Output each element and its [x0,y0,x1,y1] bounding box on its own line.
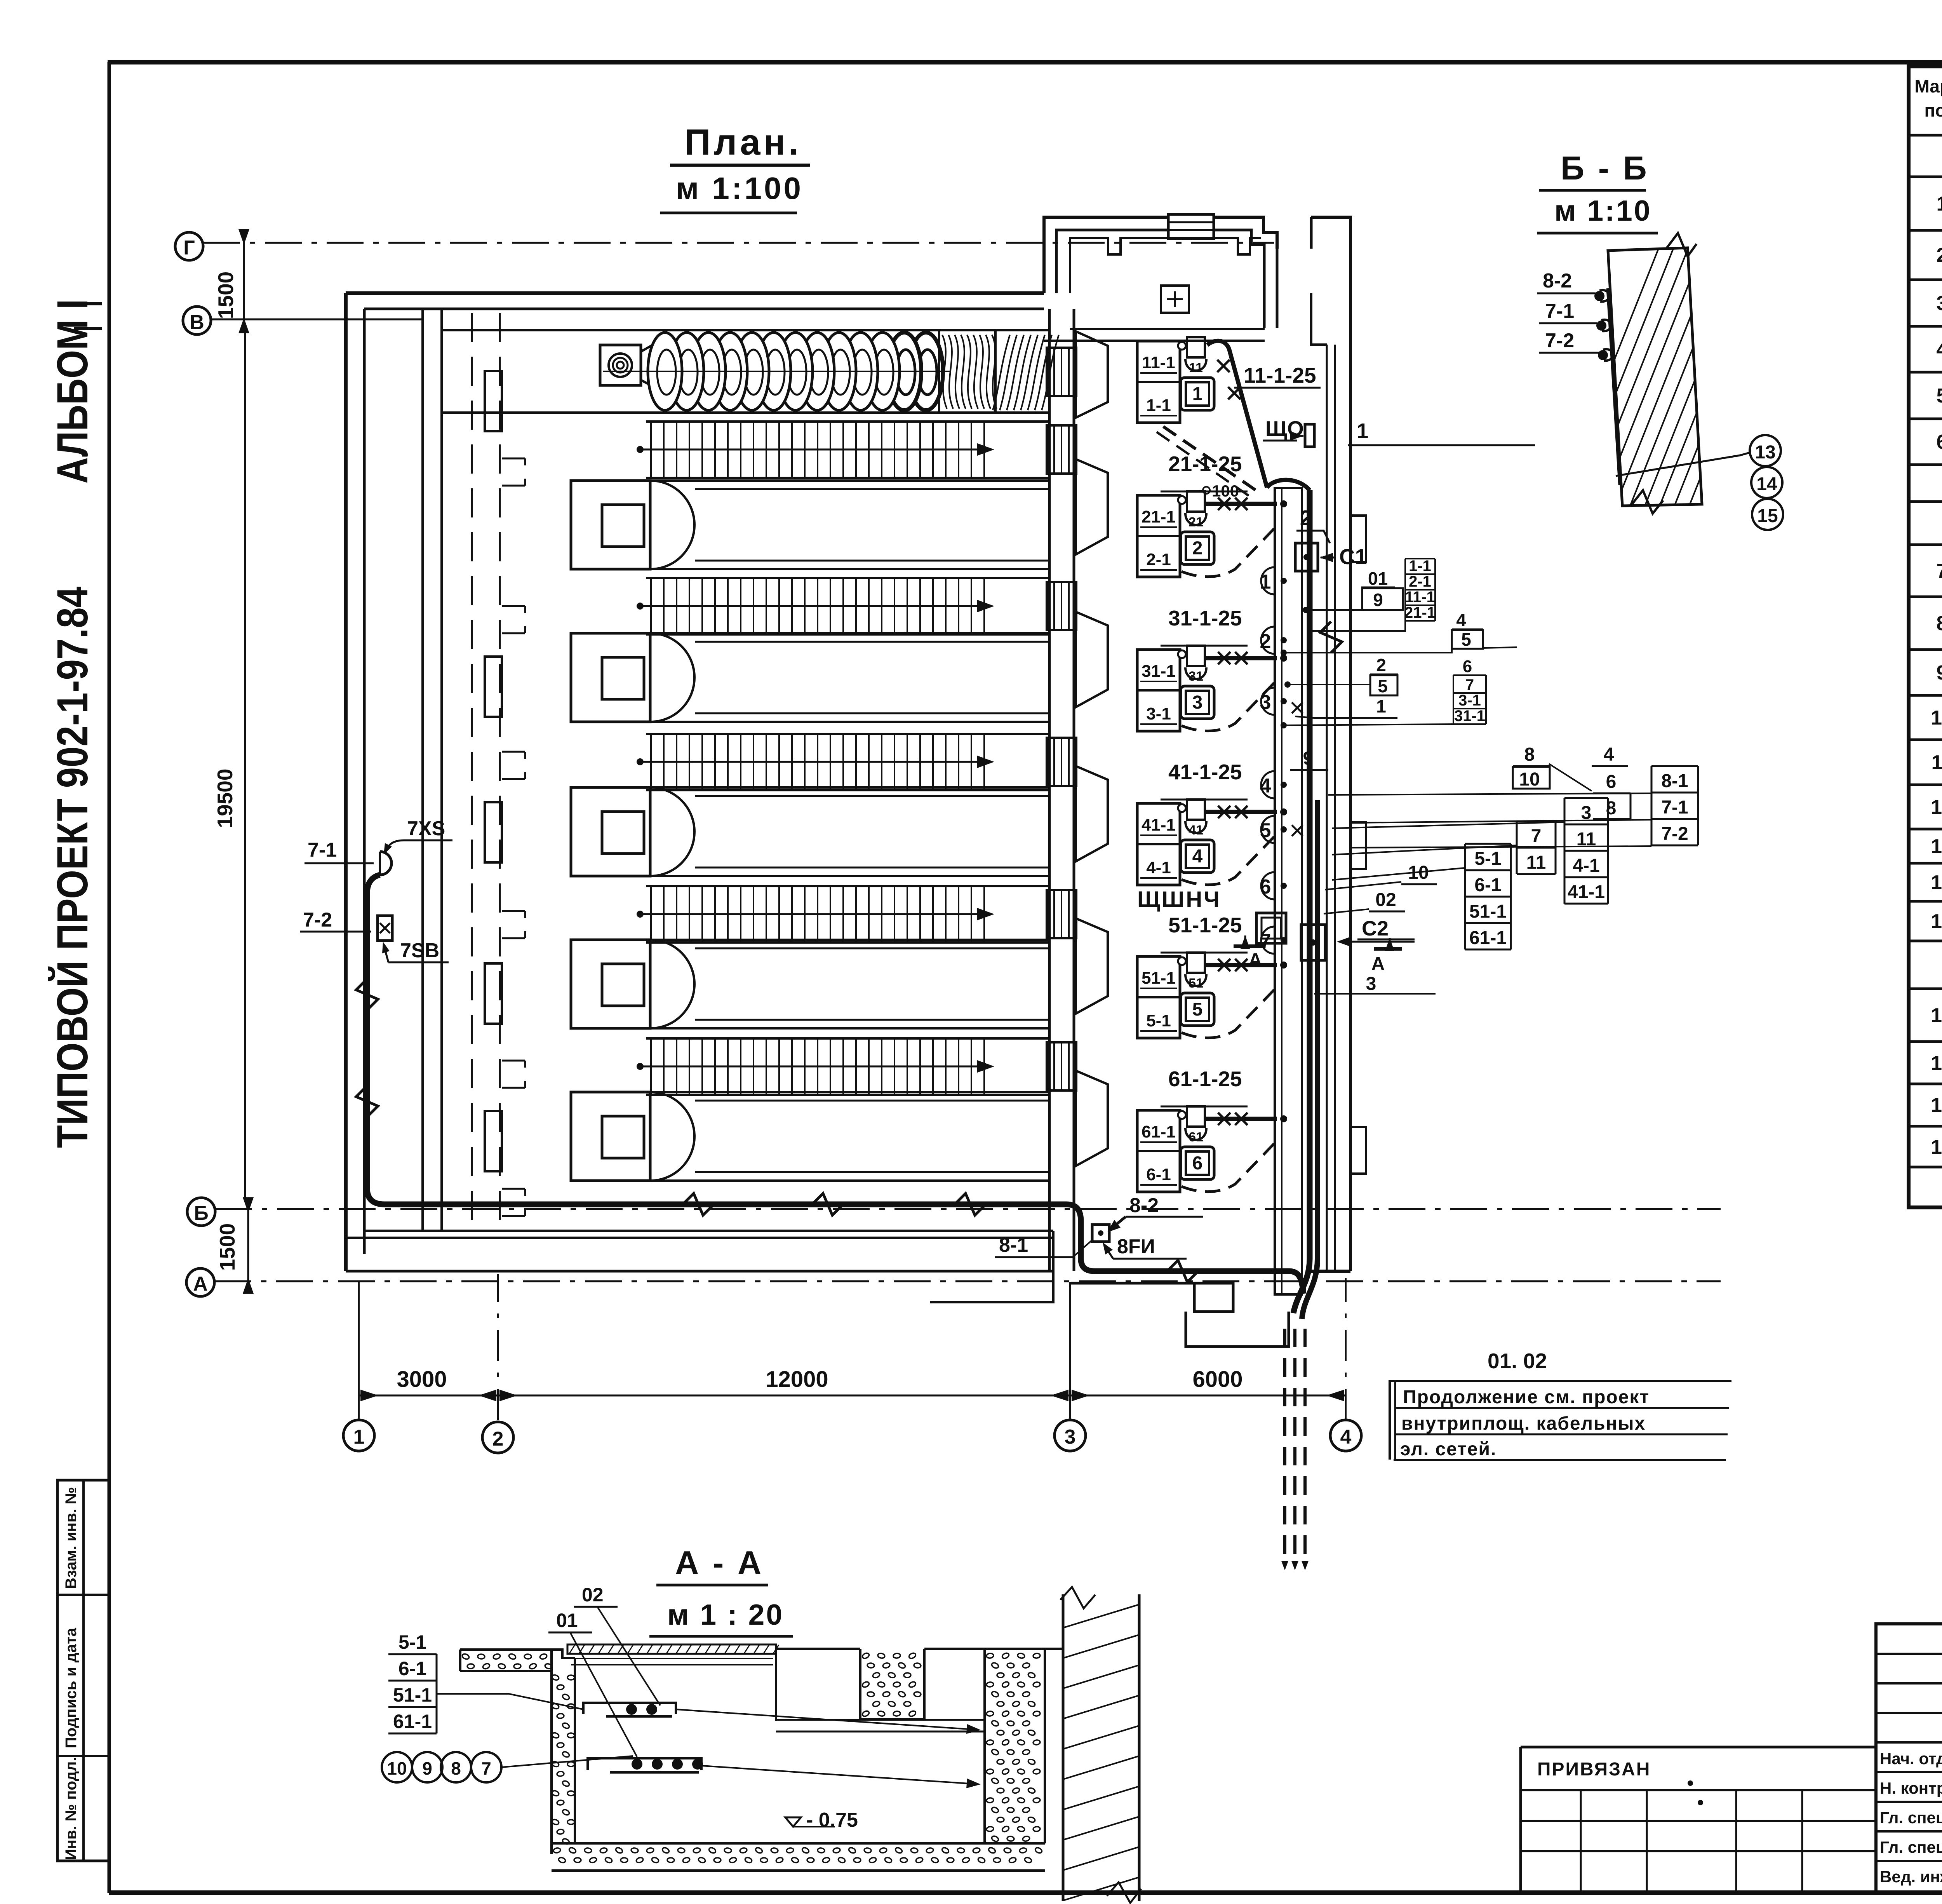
svg-text:16: 16 [1931,1004,1942,1027]
axis 1 vertical line [358,1282,360,1420]
svg-text:41-1-25: 41-1-25 [1168,760,1242,784]
riser tray bumps [1261,567,1275,594]
svg-text:Б - Б: Б - Б [1561,150,1649,187]
svg-text:11-1: 11-1 [1405,589,1435,606]
svg-text:9: 9 [1303,748,1314,769]
channel opening rect 4 [485,963,502,1024]
axis 2 vertical line [497,1274,499,1420]
outlet pier block [1194,1283,1233,1312]
AA brick wall breaks [1060,1587,1095,1608]
motor terminal square row 1 [1187,337,1205,357]
head wall window extra top [1047,348,1076,396]
svg-text:2: 2 [1300,506,1312,530]
svg-text:2: 2 [1937,244,1942,267]
svg-text:8-1: 8-1 [999,1234,1028,1256]
left cable break 1 [356,979,378,1010]
head wall window 3 [1047,738,1076,786]
svg-text:Марка: Марка [1914,76,1942,96]
svg-text:10: 10 [1931,707,1942,729]
svg-text:61-1: 61-1 [393,1711,432,1732]
svg-text:6: 6 [1192,1153,1203,1174]
svg-text:С2: С2 [1362,917,1389,940]
pump bay 4 arc [650,940,694,1028]
svg-text:м 1:100: м 1:100 [676,171,803,206]
stairs band 1 top line [646,420,1049,423]
equipment box 61-1/6-1 [1137,1110,1180,1192]
axis circle A [186,1268,214,1296]
starter box 4 [1181,840,1214,873]
stairs band 5 arrow line [640,1066,990,1068]
motor funnel row 2 [1185,513,1206,525]
svg-text:31-1: 31-1 [1454,707,1485,725]
svg-text:6000: 6000 [1192,1367,1242,1392]
svg-text:А: А [1249,950,1262,970]
svg-text:13: 13 [1755,442,1775,463]
svg-text:поз.: поз. [1925,100,1942,120]
pump bay 5 arc [650,1092,694,1181]
svg-text:7: 7 [1937,560,1942,582]
svg-text:4: 4 [1260,775,1271,797]
BB hook circle 3 [1598,350,1608,360]
circle 13 [1750,435,1781,466]
svg-text:2-1: 2-1 [1146,550,1171,569]
hall bottom wall inner line [364,1230,1053,1232]
svg-text:10: 10 [387,1758,407,1779]
channel hook 6 [502,1189,525,1216]
svg-text:9: 9 [1373,590,1383,610]
svg-text:31-1: 31-1 [1142,662,1176,681]
svg-text:7SВ: 7SВ [400,939,439,962]
svg-text:3000: 3000 [397,1367,447,1392]
svg-text:02: 02 [1375,890,1396,910]
svg-text:51-1: 51-1 [1142,969,1176,988]
svg-text:61-1-25: 61-1-25 [1168,1067,1242,1091]
svg-text:7ХS: 7ХS [407,817,445,840]
inlet hatch wavy block [939,330,995,413]
BB wall break bottom [1631,490,1663,514]
pump bay 5 inner square [602,1116,644,1158]
svg-text:6: 6 [1463,657,1472,676]
AA circles leader [501,1756,633,1767]
conveyor motor block [600,345,641,385]
head right wall notch top [1311,293,1327,345]
channel opening rect 1 [485,371,502,431]
pump bay 4 inner square [602,964,644,1006]
svg-text:внутриплощ. кабельных: внутриплощ. кабельных [1401,1413,1646,1434]
pump bay 1 inner square [602,505,644,547]
motor terminal square row 3 [1187,646,1205,666]
svg-text:Нач. отд.: Нач. отд. [1880,1749,1942,1768]
svg-text:2: 2 [1376,655,1386,675]
svg-text:61-1: 61-1 [1142,1122,1176,1141]
suction funnel 1 [1076,459,1108,554]
svg-text:11: 11 [1526,852,1546,873]
starter box 1 [1181,378,1214,410]
title block sign table [1876,1624,1942,1892]
dim 1500 G-V [243,233,245,329]
svg-text:6-1: 6-1 [1146,1165,1171,1184]
suction funnel 2 [1076,612,1108,707]
riser tap row 2 [1280,500,1287,507]
pump bay 2 block [571,633,650,722]
AA level mark -0.75 [785,1817,801,1827]
svg-text:51-1: 51-1 [393,1684,432,1706]
axis line G dash-dot [203,242,1274,244]
AA under-plate lines [571,1658,773,1659]
head wall window 2 [1047,582,1076,630]
hall outer left wall [344,293,348,1271]
head top inner wall pair [1276,249,1279,328]
privyazan strip [1521,1746,1876,1749]
svg-text:В: В [190,311,204,334]
svg-text:2: 2 [1260,630,1271,653]
svg-text:11: 11 [1932,751,1942,774]
head right wall pilasters [1350,516,1366,562]
AA pier [860,1649,924,1719]
head wall window 1 [1047,425,1076,474]
axis line A dash-dot [214,1280,1721,1282]
svg-text:4: 4 [1340,1426,1352,1448]
motor funnel row 3 [1185,667,1206,679]
inlet hatch diagonal block [995,330,1049,413]
svg-text:А - А: А - А [675,1545,764,1582]
svg-text:14: 14 [1931,871,1942,894]
svg-text:100: 100 [1212,482,1239,500]
svg-text:Подпись и дата: Подпись и дата [63,1627,80,1748]
pump bay 3 arc [650,787,694,876]
svg-text:Взам. инв. №: Взам. инв. № [63,1487,80,1589]
sheet border top [108,60,1942,64]
stairs band 3 arrow line [640,761,990,763]
AA left slab [460,1650,552,1671]
cable run row 6 [1206,1117,1277,1121]
head wall window 5 [1047,1042,1076,1090]
svg-text:6-1: 6-1 [398,1658,426,1679]
svg-text:1: 1 [1376,696,1386,716]
svg-text:11-1-25: 11-1-25 [1244,363,1316,387]
motor funnel row 4 [1185,821,1206,833]
svg-text:8-2: 8-2 [1129,1194,1159,1217]
svg-text:7-2: 7-2 [1661,824,1688,844]
SCHSHNCH panel symbol [1256,913,1286,943]
motor terminal square row 2 [1187,491,1205,512]
terminal circle row 6 [1178,1111,1186,1119]
svg-text:2: 2 [492,1428,504,1450]
svg-text:17: 17 [1931,1052,1942,1075]
svg-text:м 1:10: м 1:10 [1554,194,1651,227]
channel opening rect 3 [485,802,502,862]
svg-text:1: 1 [1937,193,1942,215]
svg-text:12: 12 [1931,796,1942,819]
svg-text:8-2: 8-2 [1543,270,1572,292]
BB leader to circles [1616,453,1750,476]
svg-text:4-1: 4-1 [1146,858,1171,877]
pump bay 2 inner square [602,657,644,699]
svg-text:ТИПОВОЙ ПРОЕКТ 902-1-97.84: ТИПОВОЙ ПРОЕКТ 902-1-97.84 [48,587,97,1148]
left cable vertical run [367,875,385,1204]
svg-text:5: 5 [1937,385,1942,407]
svg-text:2-1: 2-1 [1409,573,1431,590]
left cable break 2 [356,1086,378,1117]
AA stack bracket [436,1654,438,1733]
axis line V [211,319,423,321]
svg-text:15: 15 [1757,506,1778,526]
equipment box 11-1/1-1 [1137,341,1180,423]
terminal circle row 3 [1178,650,1186,658]
motor terminal square row 4 [1187,800,1205,820]
head top room bottom wall [1070,328,1265,330]
motor coupling circles [609,354,632,377]
section cut A lower [1374,947,1402,951]
svg-text:6: 6 [1937,431,1942,453]
svg-text:3-1: 3-1 [1458,692,1481,709]
riser tap row 3 [1280,655,1287,662]
socket 7XS symbol [380,852,392,875]
terminal circle row 1 [1178,342,1186,350]
BB hook circle 1 [1594,291,1604,301]
SCHO panel box [1305,424,1314,447]
head top gate hatch [1168,214,1214,239]
channel hook 1 [502,458,525,486]
pump bay 1 channel lines [650,479,1049,482]
stairs band 1 hatch [651,422,984,478]
AA floor band [552,1842,1045,1845]
stairs band 1 arrow line [640,449,990,451]
axis circle 1 [343,1420,374,1451]
starter box 3 [1181,686,1214,719]
cable run row 3 [1206,656,1277,660]
AA upper shelf arrow [676,1709,975,1730]
svg-text:5-1: 5-1 [398,1631,426,1653]
channel hook 5 [502,1061,525,1088]
svg-text:1: 1 [1357,419,1369,443]
svg-text:4: 4 [1604,744,1614,765]
starter box 6 [1181,1147,1214,1179]
motor cone [641,341,660,390]
svg-text:1: 1 [1192,384,1203,404]
cable run row 4 [1206,810,1277,814]
svg-text:А: А [1371,954,1385,974]
stack labels 1-1 2-1 11-1 21-1 [1404,557,1436,621]
outlet right wall lines [1311,1270,1350,1273]
svg-text:10: 10 [1519,769,1540,790]
svg-text:15: 15 [1931,910,1942,933]
svg-text:С1: С1 [1339,544,1367,569]
svg-text:5-1: 5-1 [1146,1011,1171,1030]
bottom cable breaks [683,1193,714,1215]
svg-text:01: 01 [1368,568,1388,589]
svg-text:8: 8 [1524,744,1535,765]
riser cable 1 [1307,490,1313,1259]
stairs band 4 top line [646,885,1049,887]
svg-text:ПРИВЯЗАН: ПРИВЯЗАН [1537,1759,1651,1780]
albom I serif marks [74,302,102,305]
svg-text:41: 41 [1189,823,1203,838]
channel hook 2 [502,606,525,633]
head top plus square [1161,286,1189,313]
outlet pipes dashed [1283,1329,1286,1564]
svg-text:21-1: 21-1 [1404,604,1436,621]
conveyor channel top line [442,329,1049,331]
AA upper shelf [583,1703,676,1714]
riser top bend [1267,480,1310,490]
head right wall inner lines [1326,345,1328,1270]
svg-text:7: 7 [1465,676,1474,693]
svg-text:21: 21 [1189,515,1203,530]
AA slab step [552,1650,575,1658]
riser tap row 6 [1280,1115,1287,1122]
svg-text:51-1-25: 51-1-25 [1168,913,1242,937]
axis circle B [187,1198,215,1226]
svg-text:5: 5 [1461,629,1471,650]
box C2 [1301,925,1325,960]
pushbutton 7SB symbol [378,916,392,941]
svg-text:4: 4 [1937,338,1942,361]
right wall cable break [1320,622,1342,653]
svg-text:19500: 19500 [213,769,237,828]
svg-text:7-1: 7-1 [1545,300,1574,322]
svg-text:6-1: 6-1 [1474,875,1501,895]
outlet chamber [1186,1312,1289,1347]
svg-text:7-2: 7-2 [303,909,332,931]
svg-text:01: 01 [556,1610,578,1631]
bottom cable horizontal [385,1202,1066,1207]
channel dashed line right [499,313,501,1228]
BB bracket stand [1608,288,1620,485]
motor funnel row 5 [1185,974,1206,986]
svg-text:21-1: 21-1 [1142,507,1176,526]
svg-text:51-1: 51-1 [1469,901,1507,922]
stairs band 5 top line [646,1037,1049,1040]
svg-text:3: 3 [1937,292,1942,315]
AA top edge right part [776,1648,860,1650]
svg-text:8: 8 [451,1758,461,1779]
stairs band 2 arrow line [640,605,990,607]
pump bay 2 channel lines [650,632,1049,634]
screw spiral loops [909,333,943,410]
hall inner left wall [363,309,366,1254]
cable run row 1 diagonal [1207,341,1267,488]
svg-text:14: 14 [1756,474,1777,495]
hall top wall inner [364,308,1044,310]
channel opening rect 5 [485,1111,502,1171]
head right wall outer [1311,217,1350,1271]
axis 3 vertical line [1069,1282,1071,1420]
pump bay 2 arc [650,633,694,722]
svg-text:12000: 12000 [766,1367,828,1392]
svg-text:01. 02: 01. 02 [1488,1349,1547,1373]
screw axis line [603,371,950,372]
svg-text:3: 3 [1260,691,1271,714]
svg-text:1: 1 [353,1426,365,1448]
svg-text:эл. сетей.: эл. сетей. [1400,1439,1497,1460]
motor terminal square row 5 [1187,953,1205,973]
stairs band 3 hatch [651,734,984,790]
svg-text:8: 8 [1937,612,1942,635]
svg-text:18: 18 [1931,1094,1942,1117]
svg-text:7-1: 7-1 [1661,797,1688,818]
svg-text:3: 3 [1366,974,1376,994]
terminal circle row 5 [1178,957,1186,965]
svg-text:4: 4 [1192,846,1203,867]
svg-text:8-1: 8-1 [1661,771,1688,791]
axis circle G [175,232,203,260]
channel hook 3 [502,752,525,779]
head left wall line 2 [1073,309,1075,1271]
pump bay 1 arc [650,481,694,569]
svg-text:5: 5 [1260,819,1271,842]
svg-text:1500: 1500 [215,1223,239,1271]
svg-text:Вед. инж.: Вед. инж. [1880,1867,1942,1886]
svg-text:61: 61 [1189,1130,1203,1144]
head top inner room [1070,238,1261,293]
equipment box 41-1/4-1 [1137,803,1180,885]
hall bottom wall outer [346,1237,1053,1239]
svg-text:7-1: 7-1 [308,839,337,861]
suction funnel 3 [1076,766,1108,861]
svg-text:1: 1 [1260,571,1271,593]
circle 14 [1751,467,1782,498]
svg-text:51: 51 [1189,976,1203,991]
box C1 [1295,543,1318,571]
svg-text:3: 3 [1065,1426,1076,1448]
dim line 19500 vertical [244,329,246,1200]
svg-text:5: 5 [1192,999,1203,1020]
cable run row 5 [1206,963,1277,967]
svg-text:6: 6 [1260,876,1271,898]
x mark at tray 3 [1292,702,1303,713]
svg-text:9: 9 [422,1758,432,1779]
svg-text:Н. контр.: Н. контр. [1880,1779,1942,1797]
channel dashed line left [471,313,473,1228]
sheet border bottom [109,1890,1942,1895]
stairs band 5 bottom line [646,1094,1049,1096]
BB hook circle 2 [1596,321,1606,331]
pump bay 1 block [571,481,650,569]
riser cable 2 [1315,800,1320,1259]
axis 4 vertical line [1345,1278,1347,1420]
riser tap row 5 [1280,962,1287,969]
stairs band 4 arrow line [640,913,990,915]
leaders lower group [1328,793,1651,795]
pump bay 5 channel lines [650,1091,1049,1093]
cable run row 2 [1206,502,1277,506]
bottom cable corner down [1066,1204,1095,1271]
axis circle 2 [482,1422,513,1453]
connector box 8FI [1092,1225,1109,1242]
terminal circle row 4 [1178,804,1186,812]
AA lower shelf arrow [701,1766,975,1784]
AA brick wall [1062,1594,1065,1901]
motor terminal square row 6 [1187,1106,1205,1127]
svg-text:Продолжение см. проект: Продолжение см. проект [1403,1387,1650,1408]
left strip table frame [57,1480,110,1861]
svg-text:31-1-25: 31-1-25 [1168,606,1242,630]
channel hook 4 [502,911,525,938]
stairs band 2 top line [646,577,1049,579]
hall top wall outer [346,291,1044,295]
bottom dimension line [359,1395,1346,1397]
equipment box 51-1/5-1 [1137,956,1180,1038]
svg-text:11: 11 [1189,361,1203,375]
pump bay 3 inner square [602,812,644,854]
svg-text:Инв. № подл.: Инв. № подл. [63,1757,80,1860]
svg-text:19: 19 [1931,1136,1942,1158]
svg-text:План.: План. [684,122,802,162]
pump bay 3 channel lines [650,786,1049,789]
svg-text:31: 31 [1189,669,1203,684]
svg-text:1-1: 1-1 [1146,396,1171,415]
